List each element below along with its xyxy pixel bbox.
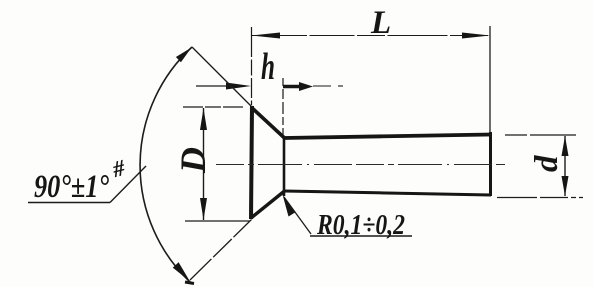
svg-text:h: h <box>261 46 275 88</box>
svg-text:R0,1÷0,2: R0,1÷0,2 <box>316 210 405 241</box>
svg-text:90°±1°: 90°±1° <box>34 169 109 205</box>
svg-text:L: L <box>370 5 391 41</box>
svg-text:#: # <box>109 155 128 182</box>
svg-text:D: D <box>173 147 213 174</box>
svg-text:d: d <box>529 155 565 172</box>
